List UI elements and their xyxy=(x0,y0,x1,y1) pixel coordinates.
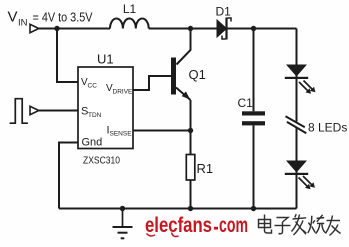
svg-text:CC: CC xyxy=(88,83,98,90)
svg-text:com: com xyxy=(219,214,248,237)
watermark chinese characters 电子发烧友 xyxy=(259,214,341,235)
watermark elecfans.com xyxy=(145,214,248,237)
wire R1 top xyxy=(190,131,192,155)
node junction emitter/ISENSE/R1 xyxy=(188,128,193,133)
wire VCC branch xyxy=(57,29,78,83)
svg-text:R1: R1 xyxy=(197,161,214,176)
wire R1 bottom xyxy=(190,180,192,209)
svg-text:IN: IN xyxy=(18,18,28,29)
node junction R1 bottom xyxy=(188,206,193,211)
IC U1 box xyxy=(78,67,133,149)
transistor Q1 xyxy=(171,58,191,101)
node VIN label xyxy=(8,9,93,29)
input port triangle SHDN xyxy=(30,106,39,114)
LED 2 xyxy=(285,161,315,190)
break symbol (more LEDs) xyxy=(286,116,307,133)
wire bottom rail xyxy=(59,208,297,210)
capacitor C1 xyxy=(242,29,265,209)
wire L1 to D1 to right rail xyxy=(149,28,297,30)
node junction collector xyxy=(188,26,193,31)
pulse source symbol xyxy=(10,99,28,124)
wire VDRIVE to base xyxy=(133,76,171,90)
svg-text:SENSE: SENSE xyxy=(110,131,133,138)
svg-text:L1: L1 xyxy=(123,2,137,16)
svg-text:D1: D1 xyxy=(216,5,232,19)
svg-text:elecfans: elecfans xyxy=(145,214,212,237)
svg-text:Gnd: Gnd xyxy=(82,137,103,149)
char shao xyxy=(308,216,312,233)
wire LED string bottom xyxy=(296,128,298,209)
resistor R1 xyxy=(186,155,195,181)
inductor L1 xyxy=(110,19,149,29)
wire top rail xyxy=(39,28,110,30)
wire ISENSE xyxy=(133,130,191,132)
svg-text:ZXSC310: ZXSC310 xyxy=(83,156,120,167)
wire LED string top xyxy=(296,29,298,122)
node junction C1 bottom xyxy=(251,206,256,211)
char zi xyxy=(277,218,289,223)
svg-text:C1: C1 xyxy=(238,96,254,110)
pin label VCC xyxy=(81,77,97,90)
node junction VIN-VCC xyxy=(54,26,59,31)
node junction C1 top xyxy=(251,26,256,31)
wire emitter to ISENSE node xyxy=(190,100,192,131)
node junction ground xyxy=(120,206,125,211)
svg-text:U1: U1 xyxy=(97,52,114,67)
svg-text:DRIVE: DRIVE xyxy=(113,89,134,96)
diode D1 (Schottky) xyxy=(217,18,231,40)
wire collector branch xyxy=(177,29,191,65)
pin label SHDN xyxy=(81,106,102,120)
svg-text:Q1: Q1 xyxy=(189,67,206,82)
svg-text:TDN: TDN xyxy=(88,112,102,119)
char fa xyxy=(295,214,296,217)
LED 1 xyxy=(285,65,316,94)
ground symbol xyxy=(113,209,133,239)
pin label ISENSE xyxy=(107,125,133,138)
wire SHDN xyxy=(39,110,78,112)
svg-text:8 LEDs: 8 LEDs xyxy=(308,121,347,135)
wire Gnd pin branch xyxy=(59,143,78,209)
input port triangle VIN xyxy=(30,24,39,32)
pin label VDRIVE xyxy=(106,83,133,96)
svg-text:V: V xyxy=(8,9,18,26)
char you xyxy=(327,220,341,222)
svg-text:= 4V to 3.5V: = 4V to 3.5V xyxy=(33,10,93,25)
char dian xyxy=(265,215,272,234)
